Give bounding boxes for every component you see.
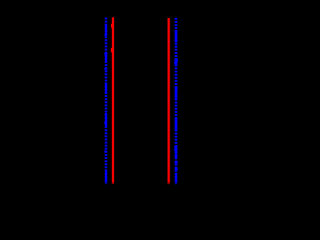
red line 1 left bump (y 24-27.5) <box>111 24 113 28</box>
blue line 1 merged solid runs <box>105 24 107 34</box>
blue line 2 merged solid runs <box>175 30 177 42</box>
red line 1 wider run (y 48-52.3) <box>111 48 114 53</box>
blue dotted line 1 (left curve of pair 1) <box>104 18 108 185</box>
blue dotted line 2 (right curve of pair 2) <box>174 18 178 185</box>
red solid line 1 (right curve of pair 1) <box>111 17 115 184</box>
red solid line 2 (left curve of pair 2) <box>167 18 170 184</box>
bottom fade of all four lines <box>95 182 190 187</box>
